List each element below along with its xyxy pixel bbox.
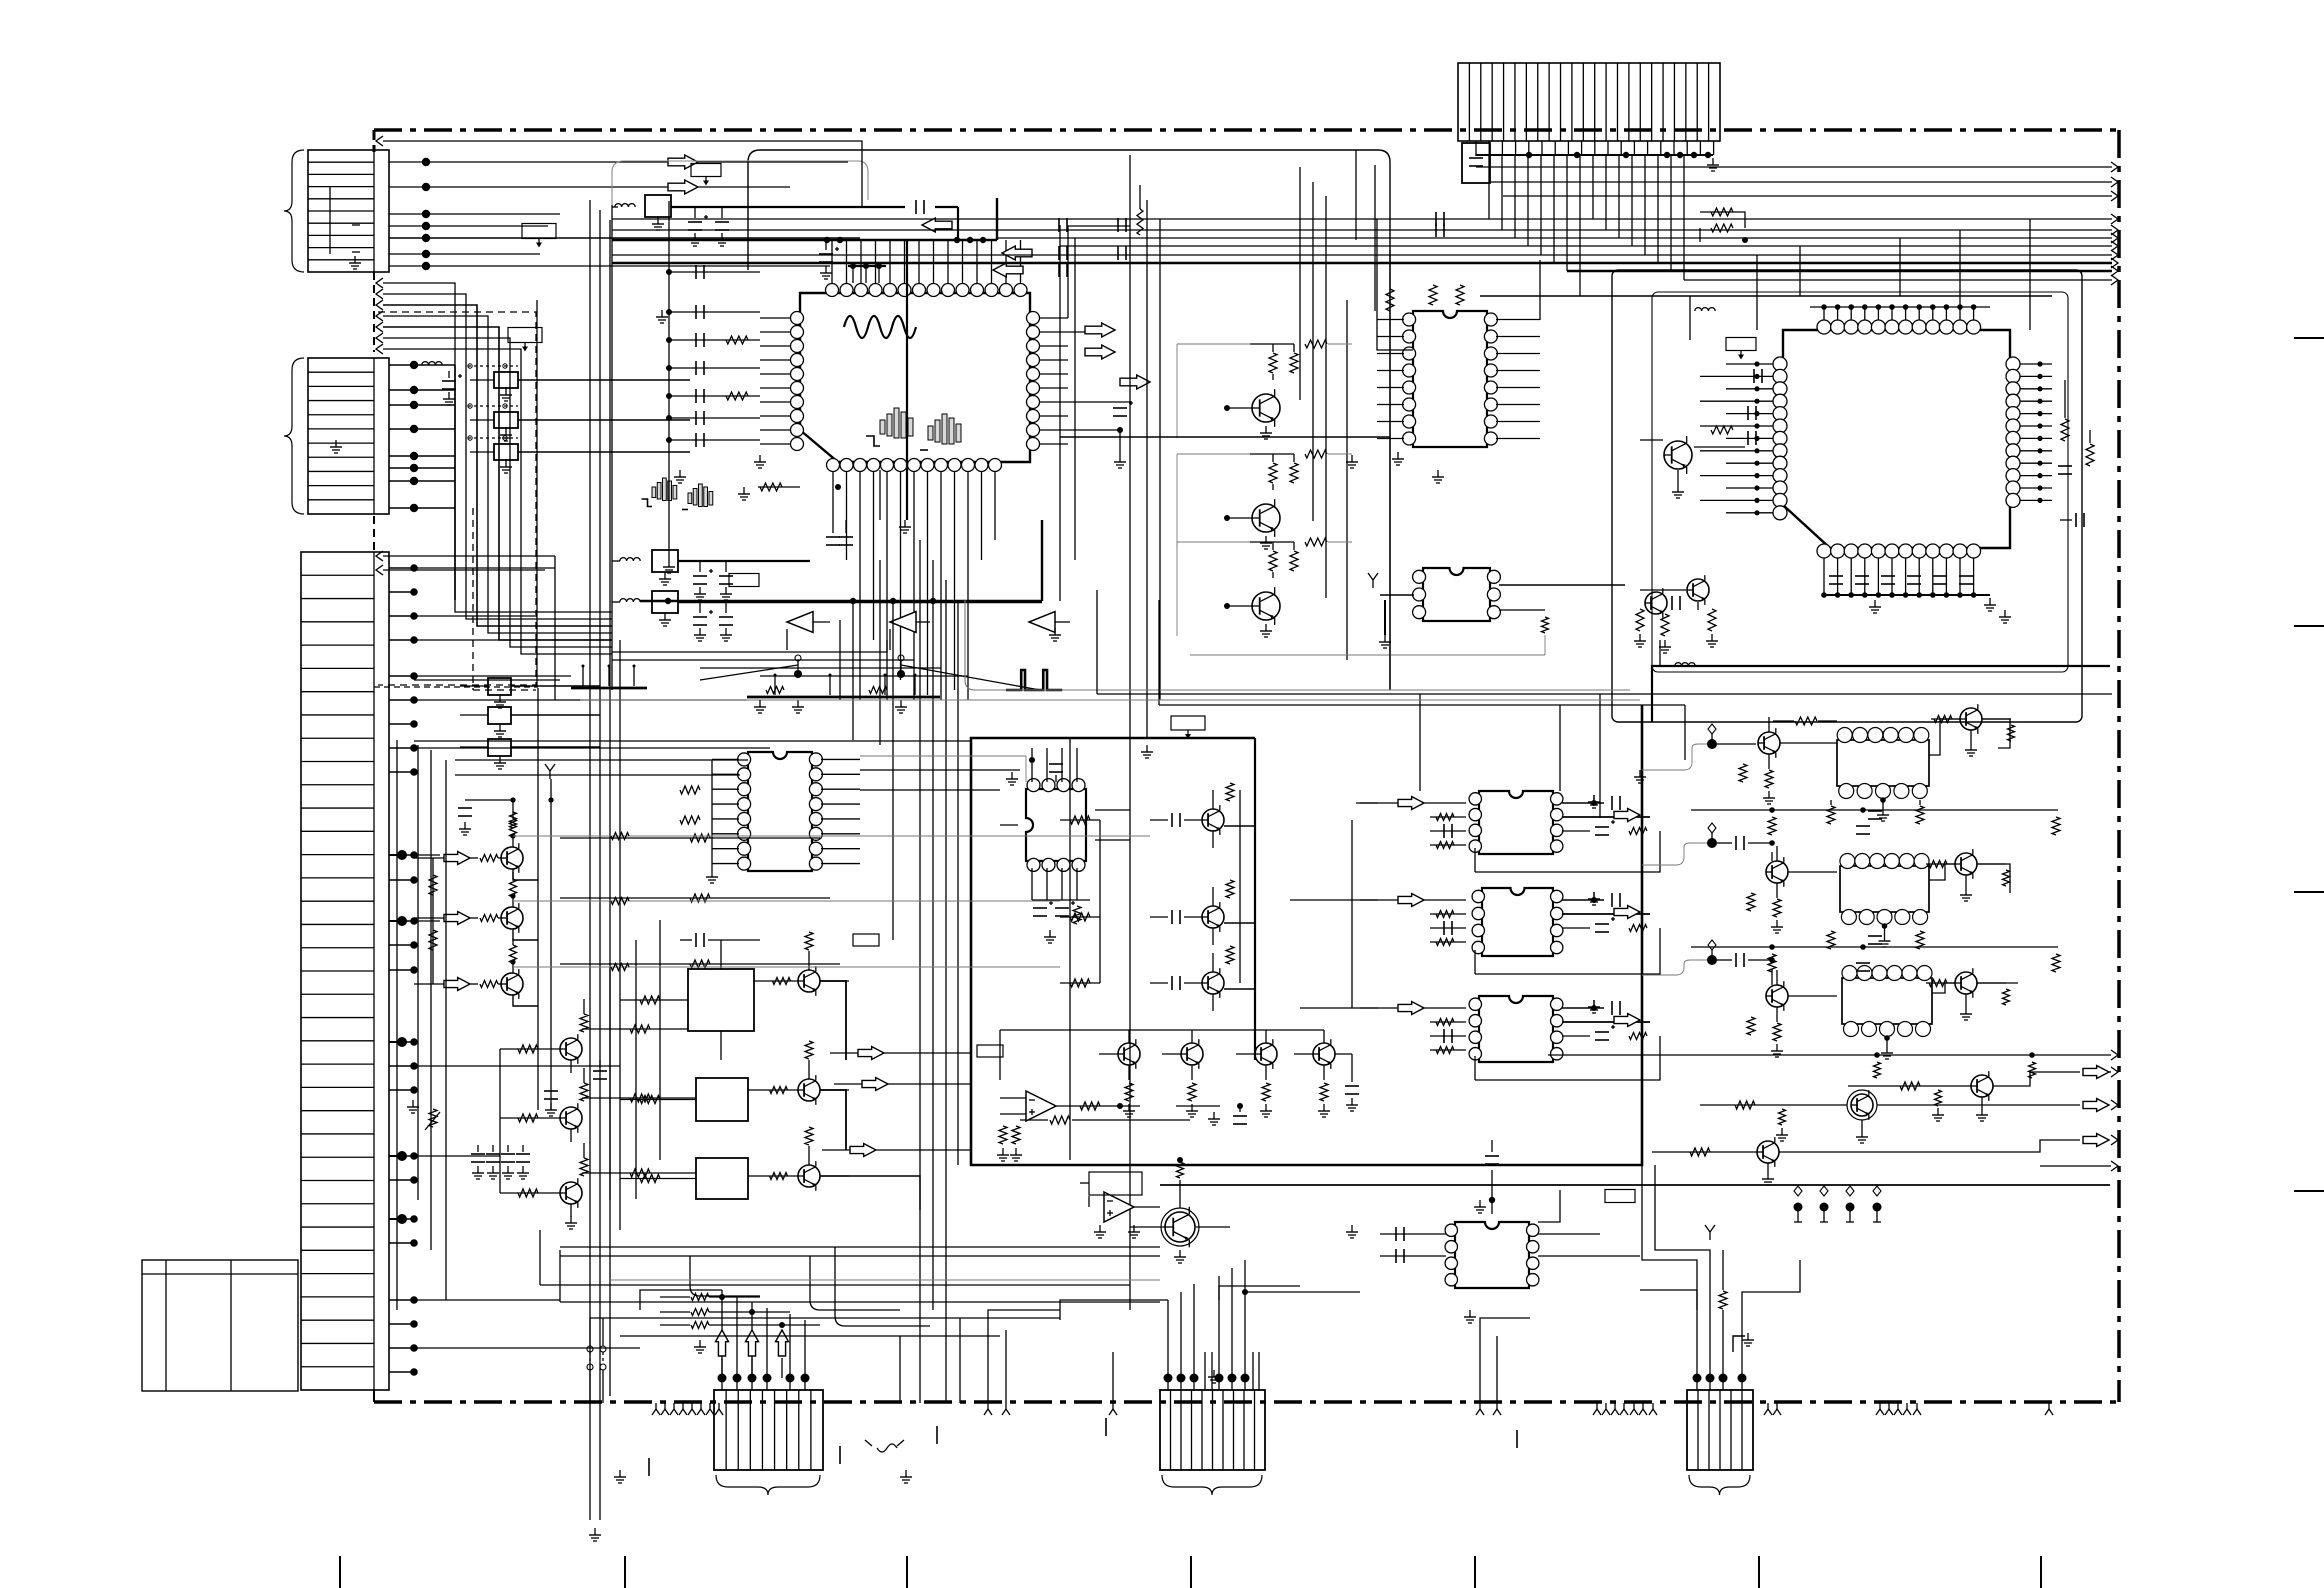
arrow S2 in [1398,894,1424,907]
arrow IC1 out1 [1085,323,1115,337]
wires IC6 [1000,748,1130,943]
connector BC2 [1160,1374,1265,1471]
transistor QL3 [501,969,523,999]
transistor QL1 [501,843,523,873]
ground G13 [614,1470,626,1483]
ground G4 [899,520,911,533]
ground G3 [754,700,766,713]
wires P3 stubs [389,564,418,1376]
wire thick bus mid [612,239,669,241]
wires U1 [997,1098,1247,1161]
wire left spine bundle [383,283,612,654]
connector BC1 [714,1374,823,1471]
test points [1794,1186,1882,1222]
tick marks small [649,1418,1517,1476]
wires QL outputs [560,834,840,968]
pulse waveform [1006,670,1062,690]
delay line DL3 [1842,966,1932,1037]
wires BC2 risers [1060,1260,1259,1390]
transistor QE3 [1757,1137,1779,1167]
ground G12 [1346,1225,1358,1238]
transistor QN1 [798,966,820,996]
ground IC4 [1190,300,1545,660]
ground G2 [674,470,686,483]
transistor QP3 [1202,968,1224,998]
transistor QL2 [501,903,523,933]
arrow A1 [668,155,698,169]
delay line DL2 [1840,854,1929,925]
IC1 stair waveform [866,408,961,450]
wires stack feeds [1290,803,1378,1008]
wire dashed group outline [378,312,536,690]
IC3 sync separator DIP16 [1403,311,1498,447]
power group G1 [612,195,958,246]
arrow S1 out [1614,809,1640,822]
fold ticks right [2294,338,2324,1191]
transistor QA2 [1252,499,1280,537]
IC7 audio out DIP8 [1445,1222,1539,1288]
wires QM outputs [582,1025,696,1177]
wire gray path blockB [965,600,1630,690]
wire enclosure audio block [748,150,1390,690]
wires QA2 [1177,450,1352,549]
amp triangle 1 [787,612,830,650]
arrows right outputs [2083,1066,2109,1147]
wires U2 [1080,1172,1160,1238]
wire entry chevrons left [376,136,850,575]
wires gray set [513,700,1640,1280]
opamp U1 [1026,1091,1056,1121]
label box L6 [853,934,879,946]
transistor QM3 [560,1178,582,1208]
wires S3 out [1562,1000,1650,1040]
ground G15 [1464,1310,1476,1323]
fork wire ends bottom [652,1403,2053,1415]
wires IC5 [680,759,860,883]
label box L1 [522,224,556,248]
arrow IC1 out2 [1085,345,1115,359]
wires QR bus [1000,1030,1359,1124]
wire enclosure inner [612,161,868,205]
ground IC1 left [663,455,766,573]
wire blockB inner vertical [1069,738,1071,1160]
wire frame left border segments [373,130,376,1402]
IC5 servo DIP16 [738,752,823,871]
wires servo1 [620,932,849,1004]
wires QL col [429,764,558,1116]
wires long bottom pair [560,1247,1160,1326]
wire frame top border [374,128,2119,132]
arrow S1 in [1398,797,1424,810]
wires QM1 [500,999,588,1073]
wires long verticals mid [840,240,958,1403]
wires servo3 [620,1127,849,1183]
wires center verticals extra [1060,225,1600,818]
ground G1 [656,310,668,323]
arrow IC1 in3 [993,263,1023,277]
wires QP3 [1060,946,1255,1011]
label box L5 [729,574,759,587]
transistor QR3 [1255,1039,1277,1069]
transistor QP2 [1202,902,1224,932]
transistor QE1 [1971,1071,1993,1101]
relay link boxes P3 [460,678,600,769]
transistor QA1 [1252,389,1280,427]
capacitor P2 [442,371,462,405]
wires S1 out [1562,795,1650,835]
arrow A2 [668,180,698,194]
label box blockB [1171,716,1205,739]
wires S1 loop [1475,831,1660,872]
label box L2 [508,328,542,352]
wires QR1 [1099,1030,1135,1117]
wires IC1 right [1040,226,1133,468]
IC1 sine waveform [844,316,916,338]
inductor P2 [422,362,442,365]
ground G8 [1634,770,1646,783]
wires DL inputs [1707,724,1717,965]
wires cross center [880,198,1042,601]
delay line DL1 [1837,728,1929,799]
transistor QD2a [1766,857,1788,887]
wires IC1 left caps [666,201,790,560]
caps series top [1059,212,1444,277]
wires P3 runs [414,568,770,1348]
transistor QB3 [1687,575,1709,605]
wires mid horizontals [374,640,1020,790]
wire thick mid bus [640,598,1042,604]
wires P2 fanout [389,361,455,600]
ground G10 [1999,610,2011,623]
connector P2 [308,358,389,514]
stair waveform below IC1 [642,478,713,510]
trimmer symbols [700,655,1040,713]
connector J-top [1458,63,1720,141]
wires servo2 [620,1041,849,1104]
ground G11 [1208,1112,1220,1125]
wires DL3 gnd [1881,1035,1893,1059]
transistor QB2 [1645,588,1667,618]
wires QS1 [1130,1157,1230,1227]
chevrons right mid [2040,1050,2118,1171]
wires IC1 bottom pins [612,472,995,700]
wires J-top bus [1462,141,1719,183]
arrows mid [822,1047,940,1157]
squiggle mark [865,1440,904,1452]
wires chevron 556/570 [383,556,555,570]
wires QP col [1100,790,1240,983]
wires bottom runs [540,1230,1160,1403]
wires IC7 [1380,1140,1640,1263]
transistor QM1 [560,1034,582,1064]
arrow QL3 [444,978,470,991]
IC_S3 dropout DIP8 [1469,996,1563,1062]
brace connector P1 [284,150,304,272]
wires J-top drops [1489,155,1684,296]
wires DL interconnect [1827,719,2018,993]
arrow IC1 in2 [1002,246,1032,260]
block servo2 [696,1078,748,1121]
transistor QS1 circled [1161,1207,1199,1263]
wires right mid horiz [1160,1185,2110,1203]
wires S2 out [1562,892,1650,932]
ground G5 [1141,745,1153,758]
caps quad QL bottom [407,1100,530,1179]
wire block B outline [971,705,1642,1165]
arrow S3 in [1398,1002,1424,1015]
wires QB2 QB3 [1634,590,1718,653]
resistor squiggle vert [1137,185,1143,235]
IC1 video processor QFP [791,284,1040,472]
IC6 reference DIP8 [1026,779,1086,872]
ground G6 [1346,455,1358,468]
wires QM2 [500,1068,588,1142]
wires DL1 gnd [1877,797,1889,821]
IC2 chroma processor QFP [1773,320,2020,558]
wires BC2 branches [1208,1286,1360,1383]
arrow S2 out [1614,906,1640,919]
transistor QR1 [1118,1039,1140,1069]
ground P1 [349,256,361,269]
arrow IC1 in1 [922,218,952,232]
wires QA3 [1177,538,1352,637]
wire frame right border [2117,130,2121,1402]
wires QP2 [1060,880,1255,945]
wires S3 in [1360,1008,1466,1054]
wires IC1 top pins [669,237,1021,283]
wires QFP2 bottom caps [1821,558,1996,611]
ground G7 [1432,470,1444,483]
wires QD1 [1739,716,2015,805]
wires QFP2 feeds [1300,167,1413,598]
jumper links bottom [587,1318,606,1403]
wires top bus set [612,167,2112,280]
label box L4 [691,164,721,186]
wires QR3 [1236,1030,1272,1117]
wires servo inputs [610,920,760,1200]
wires S1 in [1360,803,1466,849]
transistor QN2 [798,1075,820,1105]
wires QE [1548,1052,2110,1185]
power group G2 [612,550,810,600]
wire frame bottom border [374,1400,2119,1404]
transistor QA3 [1252,587,1280,625]
arrow QL1 [444,852,470,865]
wires QP1 [1060,783,1255,848]
wires QD2 [1747,846,2010,933]
wires center verticals [1130,150,1390,1310]
power group G3 [612,591,1042,641]
transistor QD3a [1766,981,1788,1011]
wires P1 fanout [330,158,860,270]
brace BC3 [1689,1475,1750,1495]
label box L3 [1726,338,1756,360]
wires S2 in [1360,900,1466,946]
wires blockB top [1097,590,2112,760]
ground IC6 [1006,757,1035,785]
wire enclosure QFP2 [1612,270,2110,722]
transistor QM2 [560,1103,582,1133]
wires BC3 risers [1640,1165,1800,1378]
amp triangle 2 [890,612,930,650]
transistor QD2b [1955,849,1977,879]
resistor QFP2 right [2058,380,2094,527]
IC_S2 dropout DIP8 [1472,888,1563,956]
wires QB1 [1640,426,1745,498]
ground P2 [330,440,342,453]
table revision block [142,1260,298,1391]
wires DL2 gnd [1879,923,1891,947]
caps below IC1 [738,483,853,545]
arrows up BC1 [716,1330,789,1378]
IC4 head amp DIP8 [1413,568,1501,621]
transistor QE2 [1847,1090,1877,1120]
wires QL2 [414,872,538,940]
connector BC3 [1687,1374,1753,1471]
wires S2 loop [1475,928,1660,974]
wires QFP2 pins [1480,296,2052,515]
wires QD3 [1747,970,2010,1057]
brace BC2 [1162,1475,1262,1495]
ground IC3 [1392,452,1404,465]
transistor QR4 [1313,1039,1335,1069]
wires IC3 [1377,260,1540,439]
wires QL3 [414,938,538,1006]
transistor QD1b [1960,704,1982,734]
wires QM3 [500,1143,588,1217]
wires IC4 [1368,573,1625,655]
arrow S3 out [1614,1014,1640,1027]
wire top link [850,141,862,207]
transistor QD1a [1758,728,1780,758]
wire chroma feed [1060,436,1390,438]
wires QN outputs [820,981,920,1210]
wires QM col [500,1049,607,1229]
transistor QR2 [1181,1039,1203,1069]
wire audio left edge [611,205,613,690]
wires fork stubs [988,1310,1530,1403]
wires BC1 risers [640,1290,805,1378]
connector P1 [308,150,389,272]
connector P3 [301,552,389,1390]
brace connector P2 [284,358,304,514]
wires QR2 [1162,1030,1198,1117]
relay link boxes P2 [468,364,690,473]
ground G9 [1869,600,1881,613]
comb symbol 1 [571,665,647,689]
wires QL1 [414,812,538,880]
transistor QD3b [1955,968,1977,998]
resistors BC1 [660,1294,820,1354]
resistor pair top right [1700,208,1748,243]
comb symbol 2 [747,674,940,698]
chevrons right top [2111,162,2118,285]
wires into blockB [940,1053,971,1150]
transistor QB1 [1664,436,1692,474]
block servo3 [696,1158,748,1199]
opamp U2 [1104,1192,1134,1222]
brace BC1 [716,1475,820,1495]
amp triangle 3 [1029,612,1070,641]
wires S3 loop [1475,1036,1660,1080]
IC_S1 dropout DIP8 [1469,791,1563,854]
wires DL feed lines [1642,717,2060,985]
wires QA1 [1177,340,1352,439]
transistor QN3 [798,1161,820,1191]
label box L7 [977,1045,1003,1057]
block servo1 [688,969,754,1031]
wires QR4 [1294,1030,1330,1117]
wires QFP2 topside [1690,219,2030,340]
fold ticks bottom [340,1556,2041,1588]
ground G14 [900,1470,912,1483]
arrow QL2 [444,912,470,925]
wires long verticals left [397,200,620,1541]
transistor QP1 [1202,805,1224,835]
arrow IC1 out3 [1120,375,1150,389]
